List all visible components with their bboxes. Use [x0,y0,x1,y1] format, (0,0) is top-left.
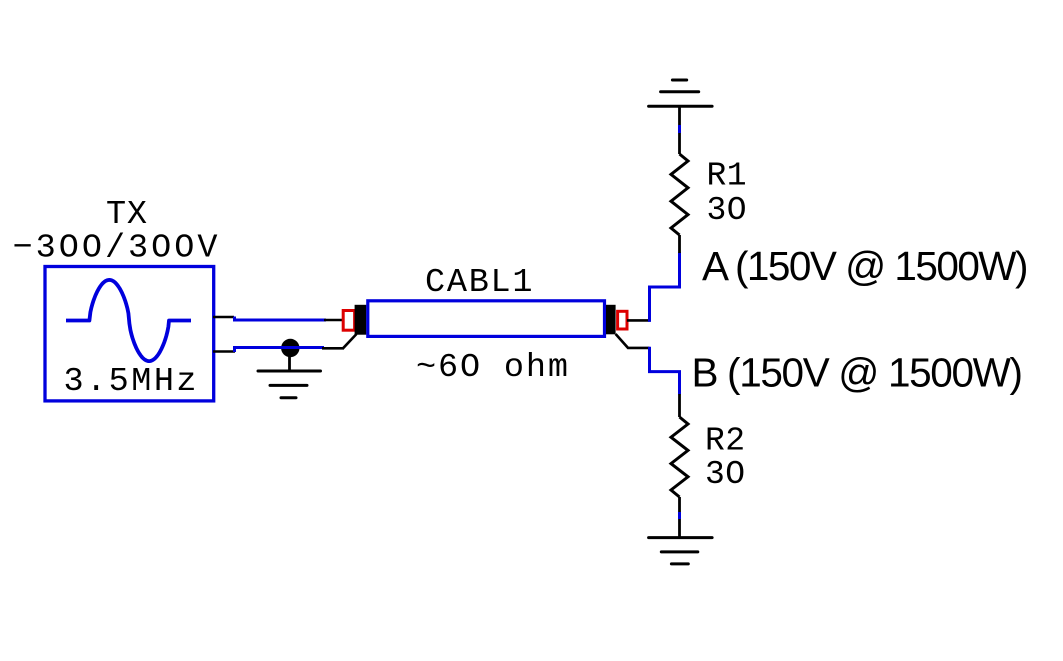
resistor R1 zigzag [671,154,688,235]
svg-text:A (150V @ 1500W): A (150V @ 1500W) [702,243,1029,289]
ground symbol left [258,371,321,398]
svg-text:CABL1: CABL1 [425,264,533,302]
connector J1 black block [355,305,367,335]
ground stem (left) [288,348,291,371]
pin stub TX lower [213,350,235,353]
resistor R1 top stem [678,106,681,154]
connector J2 black block [606,305,616,335]
cable CABL1 body [368,301,605,337]
wire black upper to connector J1 [324,319,344,322]
pin stub TX upper [213,316,234,319]
ground symbol top (inverted) [649,80,713,106]
svg-text:R2: R2 [705,423,745,460]
svg-text:3O: 3O [707,192,747,229]
svg-text:R1: R1 [707,157,747,194]
wire net lower left (blue) [235,348,325,353]
resistor R2 zigzag [671,417,688,497]
wire net A (blue) [650,253,680,322]
wire black diagonal J2 bottom [616,334,650,348]
connector J1 red square [343,311,354,331]
ground symbol bottom [649,538,713,564]
connector J2 red square [618,311,627,329]
resistor R2 bottom stem [678,497,681,538]
svg-text:~6O ohm: ~6O ohm [416,349,568,387]
wire black J2 to A elbow [627,319,650,322]
svg-text:TX: TX [106,196,147,234]
svg-text:B (150V @ 1500W): B (150V @ 1500W) [692,350,1024,396]
sine waveform inside TX [66,280,191,361]
net stub blue on R2 bottom stem [678,512,681,519]
wire net upper left (blue) [235,317,327,321]
TX source box [45,267,214,401]
net stub blue on R1 top stem [678,125,681,133]
wire net B (blue) [650,347,680,395]
wire black diagonal to connector J1 bottom [343,334,357,348]
resistor R2 top stem [678,394,681,417]
svg-text:−3OO/3OOV: −3OO/3OOV [13,230,218,268]
resistor R1 bottom stem [678,235,681,253]
junction dot [281,339,299,357]
svg-text:3O: 3O [705,456,745,493]
wire black lower to diagonal [322,347,344,350]
